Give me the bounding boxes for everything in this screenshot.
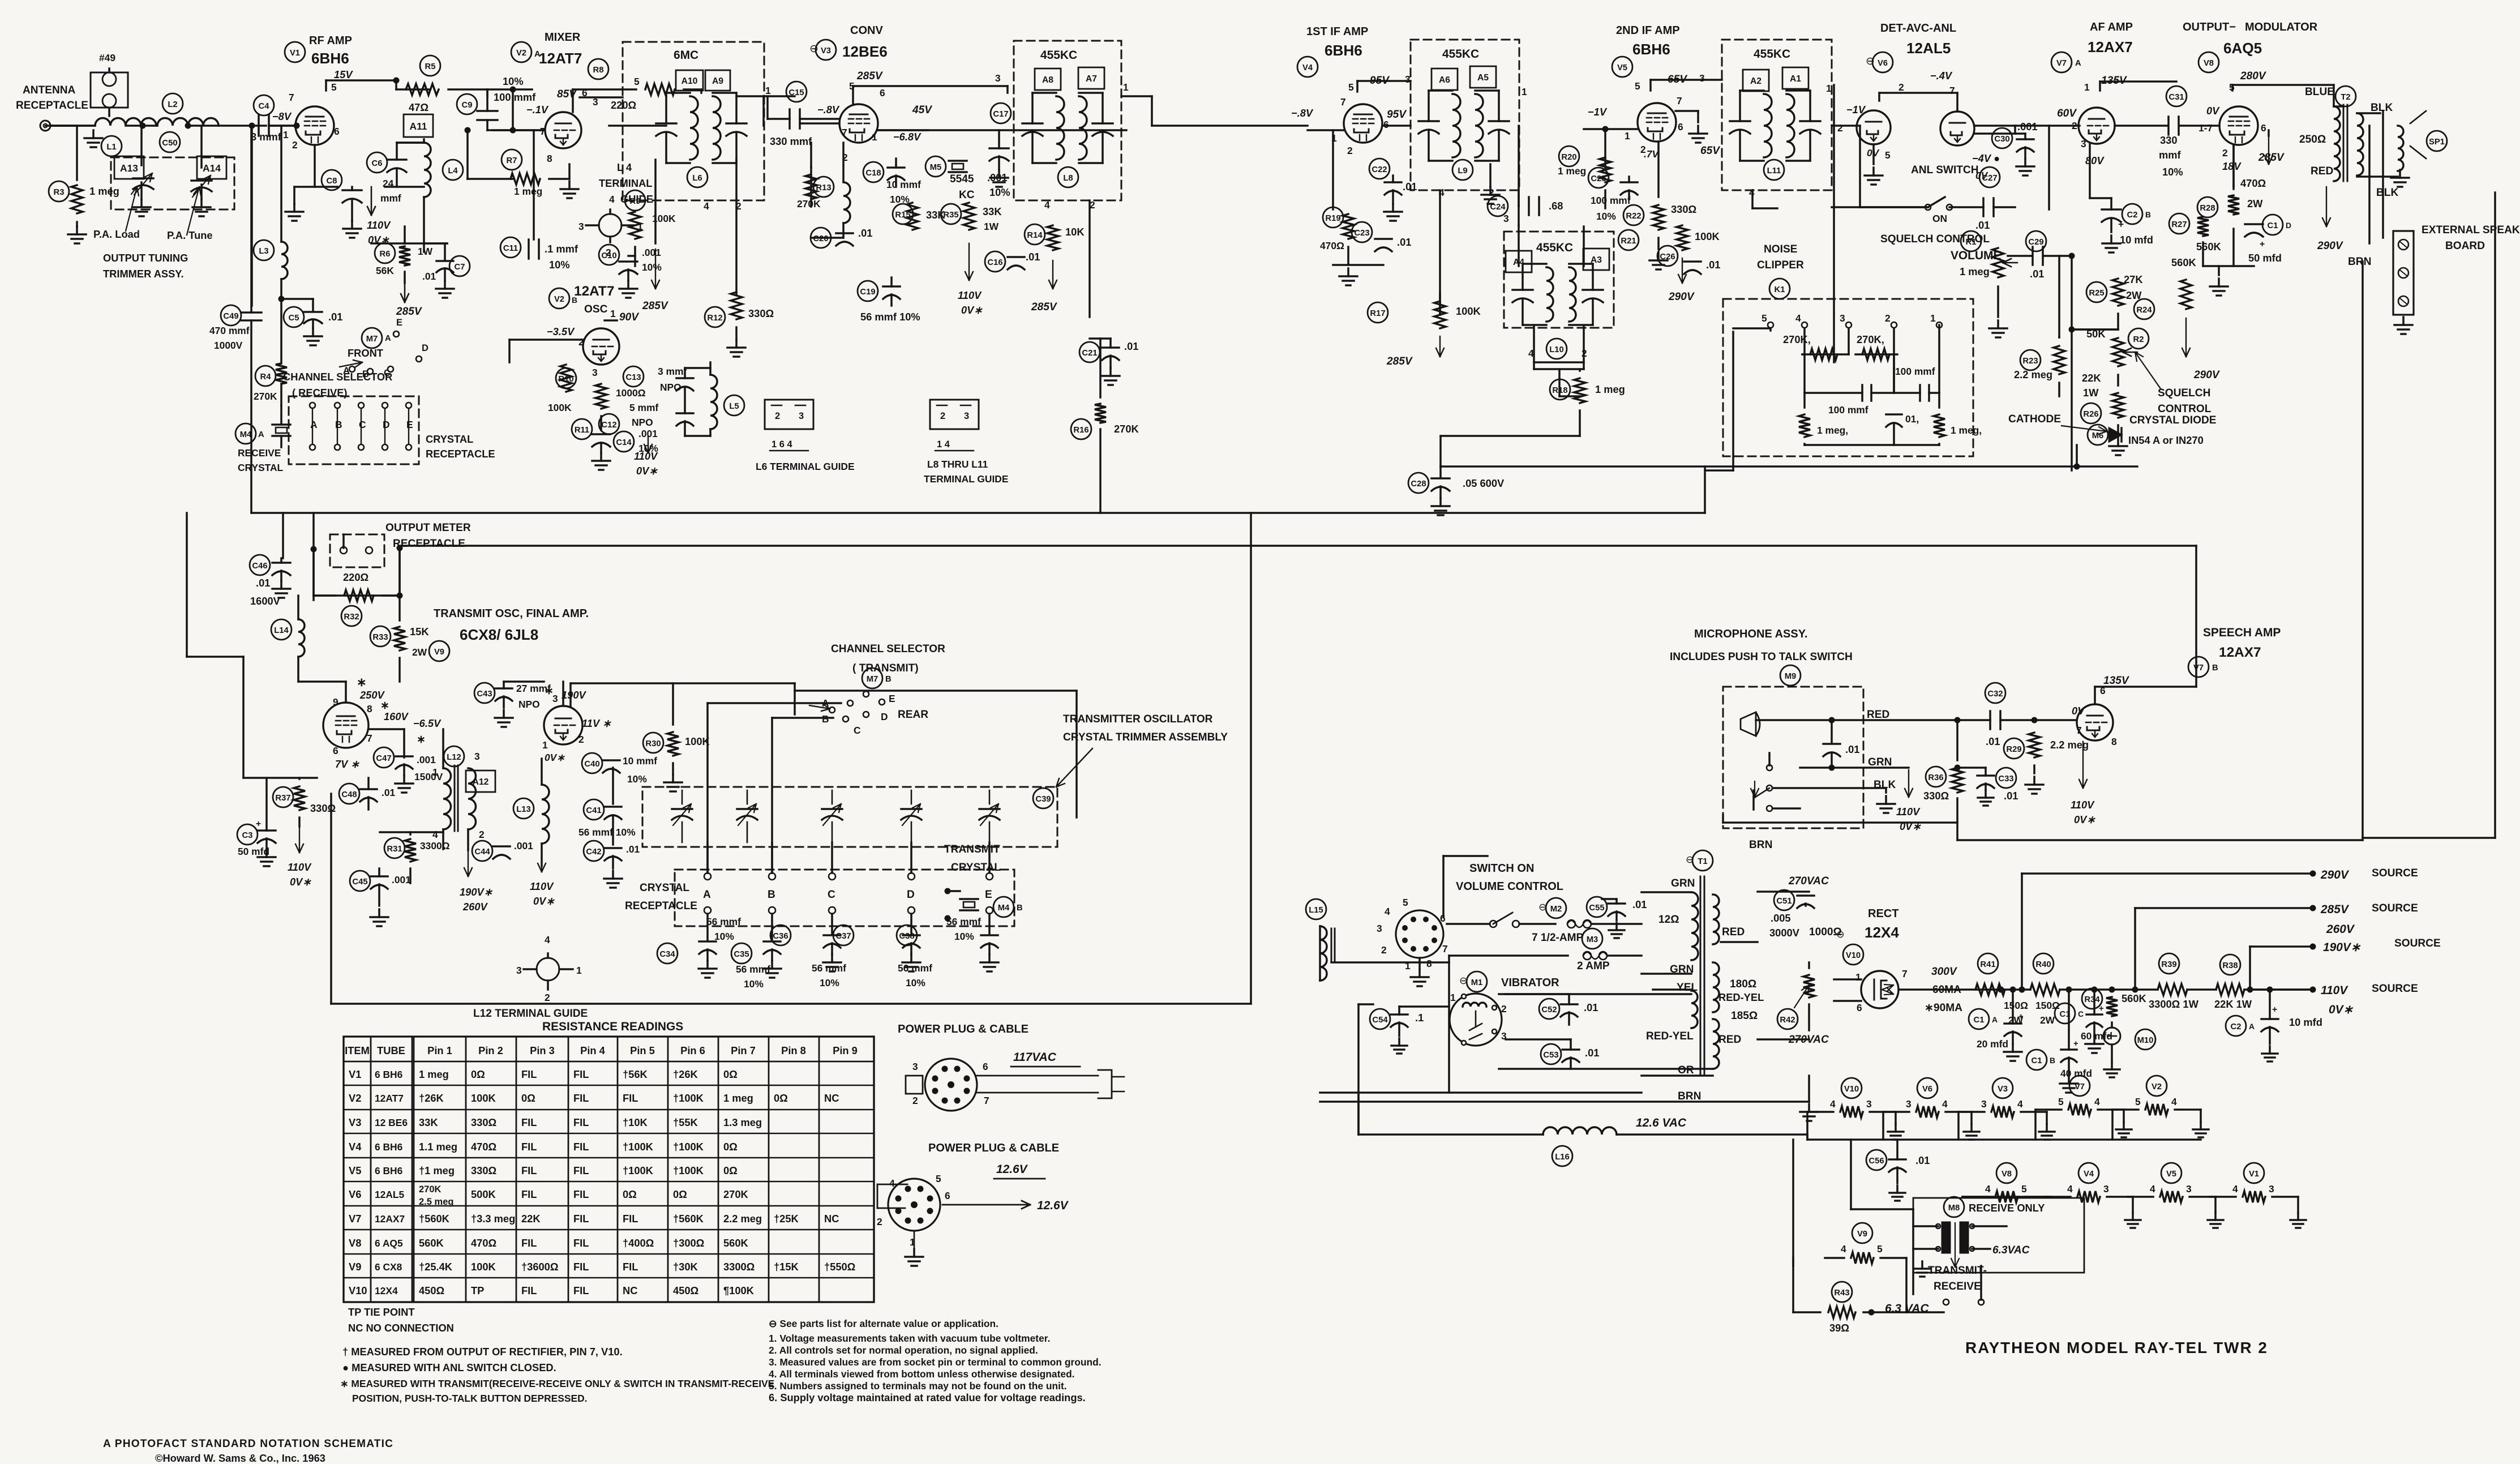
svg-text:−.1V: −.1V bbox=[526, 104, 549, 115]
svg-text:56K: 56K bbox=[376, 265, 394, 276]
svg-text:L3: L3 bbox=[259, 247, 268, 256]
svg-text:−.8V: −.8V bbox=[817, 104, 840, 115]
svg-text:6BH6: 6BH6 bbox=[311, 50, 349, 67]
svg-text:12.6V: 12.6V bbox=[1037, 1199, 1069, 1212]
svg-text:1 6 4: 1 6 4 bbox=[772, 439, 793, 450]
svg-text:10 mfd: 10 mfd bbox=[2120, 234, 2153, 246]
svg-text:290V: 290V bbox=[2317, 240, 2344, 252]
svg-text:V8: V8 bbox=[2002, 1170, 2012, 1179]
svg-text:10%: 10% bbox=[954, 931, 974, 942]
svg-text:L 4: L 4 bbox=[617, 161, 632, 173]
svg-text:7: 7 bbox=[1442, 943, 1448, 954]
svg-text:FIL: FIL bbox=[573, 1141, 589, 1153]
svg-text:1: 1 bbox=[1826, 83, 1832, 94]
svg-text:22K: 22K bbox=[521, 1213, 541, 1225]
svg-text:TRIMMER ASSY.: TRIMMER ASSY. bbox=[103, 268, 184, 280]
svg-text:B: B bbox=[2145, 210, 2151, 219]
svg-text:FIL: FIL bbox=[573, 1092, 589, 1104]
svg-text:†3.3 meg: †3.3 meg bbox=[471, 1213, 515, 1225]
svg-text:450Ω: 450Ω bbox=[673, 1285, 698, 1296]
svg-text:BRN: BRN bbox=[1678, 1090, 1701, 1102]
svg-text:10%: 10% bbox=[906, 977, 925, 988]
svg-text:4: 4 bbox=[609, 194, 615, 205]
svg-text:1: 1 bbox=[576, 965, 582, 976]
svg-text:V8: V8 bbox=[349, 1237, 361, 1249]
svg-text:90V: 90V bbox=[619, 311, 640, 323]
svg-text:5: 5 bbox=[1762, 313, 1767, 324]
svg-text:56 mmf 10%: 56 mmf 10% bbox=[860, 311, 920, 323]
svg-text:C4: C4 bbox=[259, 102, 270, 111]
svg-text:2ND IF AMP: 2ND IF AMP bbox=[1616, 24, 1680, 37]
svg-text:R17: R17 bbox=[1370, 309, 1385, 318]
svg-text:NPO: NPO bbox=[518, 699, 540, 710]
svg-text:5: 5 bbox=[936, 1173, 941, 1184]
svg-text:RF AMP: RF AMP bbox=[309, 35, 352, 47]
svg-text:A: A bbox=[343, 366, 350, 376]
svg-text:RAYTHEON MODEL RAY-TEL TWR: RAYTHEON MODEL RAY-TEL TWR 2 bbox=[1965, 1339, 2268, 1356]
svg-text:280V: 280V bbox=[2240, 70, 2267, 82]
svg-text:1 4: 1 4 bbox=[937, 439, 950, 450]
svg-text:+: + bbox=[2118, 219, 2124, 230]
svg-text:SOURCE: SOURCE bbox=[2394, 938, 2441, 949]
svg-text:R23: R23 bbox=[2022, 357, 2038, 366]
svg-text:FIL: FIL bbox=[521, 1165, 537, 1176]
svg-text:C21: C21 bbox=[1082, 349, 1097, 358]
svg-text:56 mmf: 56 mmf bbox=[736, 964, 770, 975]
svg-text:180Ω: 180Ω bbox=[1730, 978, 1756, 990]
svg-text:12AX7: 12AX7 bbox=[2088, 38, 2133, 55]
svg-text:Pin 4: Pin 4 bbox=[580, 1045, 606, 1056]
svg-text:C38: C38 bbox=[899, 932, 914, 941]
svg-text:FIL: FIL bbox=[521, 1141, 537, 1153]
svg-text:12AX7: 12AX7 bbox=[2219, 645, 2261, 660]
svg-text:C1: C1 bbox=[2268, 221, 2278, 230]
svg-text:B: B bbox=[822, 713, 829, 725]
svg-text:†100K: †100K bbox=[673, 1092, 704, 1104]
svg-text:12AL5: 12AL5 bbox=[375, 1189, 405, 1200]
svg-text:VOLUME CONTROL: VOLUME CONTROL bbox=[1456, 880, 1563, 893]
svg-text:.01: .01 bbox=[1026, 251, 1040, 263]
svg-text:135V: 135V bbox=[2103, 675, 2130, 687]
svg-text:4: 4 bbox=[1795, 313, 1801, 324]
svg-text:22K: 22K bbox=[2082, 372, 2101, 384]
svg-text:5: 5 bbox=[1348, 82, 1354, 93]
svg-text:12X4: 12X4 bbox=[375, 1285, 398, 1296]
svg-text:10%: 10% bbox=[820, 977, 839, 988]
svg-text:RED: RED bbox=[1718, 1034, 1741, 1046]
svg-text:+: + bbox=[2272, 1005, 2277, 1014]
svg-text:2: 2 bbox=[2222, 147, 2228, 159]
svg-text:+: + bbox=[256, 819, 261, 829]
svg-text:100K: 100K bbox=[685, 735, 710, 747]
svg-text:L13: L13 bbox=[516, 805, 531, 814]
svg-text:C24: C24 bbox=[1490, 203, 1506, 212]
svg-text:FIL: FIL bbox=[521, 1068, 537, 1080]
svg-text:C12: C12 bbox=[601, 421, 616, 430]
svg-text:⊖ See parts list for alter: ⊖ See parts list for alternate value or … bbox=[769, 1318, 998, 1329]
svg-text:KC: KC bbox=[959, 189, 975, 201]
svg-text:6AQ5: 6AQ5 bbox=[2223, 40, 2262, 57]
svg-text:⊖: ⊖ bbox=[1538, 901, 1547, 913]
svg-text:270K: 270K bbox=[254, 391, 277, 402]
svg-text:10%: 10% bbox=[642, 262, 662, 273]
svg-text:.01: .01 bbox=[1975, 219, 1990, 231]
svg-text:CATHODE: CATHODE bbox=[2008, 413, 2061, 425]
svg-text:285V: 285V bbox=[856, 70, 884, 82]
svg-text:RECT: RECT bbox=[1868, 907, 1898, 920]
svg-text:2W: 2W bbox=[412, 647, 427, 658]
svg-text:7: 7 bbox=[540, 126, 546, 137]
svg-text:1 meg: 1 meg bbox=[419, 1068, 449, 1080]
svg-text:.01: .01 bbox=[1124, 340, 1138, 352]
svg-text:100 mmf: 100 mmf bbox=[494, 91, 536, 103]
svg-text:4: 4 bbox=[432, 829, 438, 840]
svg-text:RED: RED bbox=[1867, 709, 1889, 721]
svg-text:3300Ω 1W: 3300Ω 1W bbox=[2149, 998, 2199, 1010]
svg-text:C3: C3 bbox=[242, 831, 253, 840]
svg-text:C28: C28 bbox=[1411, 480, 1426, 489]
svg-text:45V: 45V bbox=[912, 104, 933, 116]
svg-text:C11: C11 bbox=[503, 244, 518, 253]
svg-text:4: 4 bbox=[2150, 1183, 2155, 1195]
svg-text:.01: .01 bbox=[328, 311, 342, 323]
svg-text:12 BE6: 12 BE6 bbox=[375, 1117, 408, 1128]
svg-text:T1: T1 bbox=[1698, 857, 1707, 866]
svg-text:10 mmf: 10 mmf bbox=[623, 755, 657, 767]
svg-text:R33: R33 bbox=[372, 633, 388, 642]
svg-text:R32: R32 bbox=[344, 613, 359, 622]
svg-text:NC: NC bbox=[824, 1092, 839, 1104]
svg-text:C10: C10 bbox=[601, 251, 616, 260]
svg-text:A9: A9 bbox=[712, 76, 723, 86]
svg-text:V1: V1 bbox=[290, 49, 300, 58]
svg-text:V5: V5 bbox=[349, 1165, 361, 1176]
svg-text:V4: V4 bbox=[349, 1141, 362, 1153]
svg-text:270K: 270K bbox=[723, 1188, 749, 1200]
svg-text:mmf: mmf bbox=[2159, 149, 2182, 161]
svg-text:1 meg: 1 meg bbox=[1960, 266, 1990, 277]
svg-text:560K: 560K bbox=[2171, 256, 2197, 268]
svg-text:560K: 560K bbox=[723, 1237, 749, 1249]
svg-text:56 mmf 10%: 56 mmf 10% bbox=[578, 827, 636, 838]
svg-text:† MEASURED FROM OUTPUT OF REC: † MEASURED FROM OUTPUT OF RECTIFIER, PIN… bbox=[342, 1346, 623, 1358]
svg-text:CONV: CONV bbox=[850, 24, 883, 37]
svg-text:V1: V1 bbox=[349, 1068, 361, 1080]
svg-text:110V: 110V bbox=[958, 289, 982, 301]
svg-text:1 meg,: 1 meg, bbox=[1951, 425, 1982, 436]
svg-text:B: B bbox=[1017, 904, 1023, 913]
svg-text:V9: V9 bbox=[349, 1261, 361, 1273]
svg-text:R4: R4 bbox=[260, 373, 272, 382]
svg-text:R6: R6 bbox=[380, 250, 391, 259]
svg-text:3: 3 bbox=[578, 221, 584, 232]
svg-text:3: 3 bbox=[2186, 1183, 2192, 1195]
svg-text:C30: C30 bbox=[1994, 135, 2009, 144]
svg-text:VIBRATOR: VIBRATOR bbox=[1501, 977, 1559, 989]
svg-text:†400Ω: †400Ω bbox=[623, 1237, 654, 1249]
svg-text:0Ω: 0Ω bbox=[723, 1165, 738, 1176]
svg-text:A13: A13 bbox=[120, 162, 138, 174]
svg-text:MODULATOR: MODULATOR bbox=[2245, 21, 2318, 33]
svg-text:6 BH6: 6 BH6 bbox=[375, 1165, 403, 1176]
svg-text:260V: 260V bbox=[462, 901, 488, 913]
svg-text:R11: R11 bbox=[575, 426, 589, 435]
svg-text:TRANSMITTER OSCILLATOR: TRANSMITTER OSCILLATOR bbox=[1063, 713, 1213, 725]
svg-text:0Ω: 0Ω bbox=[673, 1188, 687, 1200]
svg-text:POWER PLUG & CABLE: POWER PLUG & CABLE bbox=[928, 1142, 1059, 1154]
svg-text:1 meg: 1 meg bbox=[1595, 383, 1625, 395]
svg-text:1: 1 bbox=[283, 129, 289, 140]
svg-text:8: 8 bbox=[367, 703, 372, 714]
svg-text:560K: 560K bbox=[2196, 241, 2222, 252]
svg-text:2: 2 bbox=[578, 336, 584, 348]
svg-text:M4: M4 bbox=[240, 430, 252, 439]
svg-text:R42: R42 bbox=[1780, 1016, 1795, 1025]
svg-text:290V: 290V bbox=[1668, 291, 1695, 303]
svg-text:6BH6: 6BH6 bbox=[1632, 41, 1670, 58]
svg-text:BRN: BRN bbox=[2348, 256, 2371, 268]
svg-text:4: 4 bbox=[1841, 1243, 1846, 1255]
svg-text:BLK: BLK bbox=[2376, 187, 2398, 199]
svg-text:56 mmf: 56 mmf bbox=[706, 916, 741, 927]
svg-text:BRN: BRN bbox=[1749, 839, 1772, 851]
svg-text:285V: 285V bbox=[1386, 356, 1413, 367]
svg-text:100 mmf: 100 mmf bbox=[1895, 366, 1935, 377]
svg-text:CRYSTAL TRIMMER ASSEMBLY: CRYSTAL TRIMMER ASSEMBLY bbox=[1063, 731, 1228, 743]
svg-text:C: C bbox=[854, 725, 861, 736]
svg-text:V10: V10 bbox=[1846, 951, 1861, 960]
svg-text:V2: V2 bbox=[2152, 1082, 2162, 1091]
svg-text:15V: 15V bbox=[334, 69, 353, 80]
svg-text:†100K: †100K bbox=[623, 1165, 654, 1176]
svg-text:V10: V10 bbox=[349, 1285, 367, 1296]
svg-text:33K: 33K bbox=[983, 206, 1002, 217]
svg-text:285V: 285V bbox=[1031, 301, 1058, 313]
svg-text:L6: L6 bbox=[692, 174, 702, 183]
svg-text:3 mmf: 3 mmf bbox=[251, 131, 282, 143]
svg-text:47Ω: 47Ω bbox=[409, 101, 428, 113]
svg-text:R39: R39 bbox=[2161, 960, 2176, 969]
svg-text:10%: 10% bbox=[744, 978, 764, 990]
svg-text:D: D bbox=[2286, 221, 2291, 230]
svg-text:.01: .01 bbox=[1584, 1001, 1598, 1013]
svg-text:C25: C25 bbox=[1591, 174, 1606, 183]
svg-text:3: 3 bbox=[1906, 1098, 1912, 1110]
svg-text:330Ω: 330Ω bbox=[310, 802, 336, 814]
svg-text:65V: 65V bbox=[1700, 145, 1721, 157]
svg-text:C1: C1 bbox=[2060, 1010, 2071, 1019]
svg-text:0V∗: 0V∗ bbox=[2329, 1003, 2354, 1016]
svg-text:C29: C29 bbox=[2028, 238, 2043, 247]
svg-text:1: 1 bbox=[432, 767, 438, 778]
svg-text:1: 1 bbox=[1123, 82, 1129, 93]
svg-text:1 meg: 1 meg bbox=[514, 186, 542, 197]
svg-text:C55: C55 bbox=[1589, 904, 1604, 913]
svg-text:R19: R19 bbox=[1325, 214, 1340, 223]
svg-text:−8V: −8V bbox=[272, 110, 292, 122]
svg-text:4: 4 bbox=[1385, 906, 1390, 917]
svg-text:V7: V7 bbox=[2056, 59, 2067, 68]
svg-text:B: B bbox=[335, 419, 342, 430]
svg-text:AF AMP: AF AMP bbox=[2090, 21, 2133, 33]
svg-text:285V: 285V bbox=[396, 306, 423, 318]
svg-text:A: A bbox=[258, 430, 264, 439]
svg-text:R20: R20 bbox=[1561, 153, 1576, 162]
svg-text:C26: C26 bbox=[1660, 252, 1675, 262]
svg-text:RED: RED bbox=[1722, 926, 1745, 938]
svg-text:100K: 100K bbox=[471, 1261, 496, 1273]
svg-text:C1: C1 bbox=[1974, 1016, 1985, 1025]
svg-text:560K: 560K bbox=[2122, 992, 2147, 1004]
svg-text:2: 2 bbox=[877, 1216, 882, 1227]
svg-text:†55K: †55K bbox=[673, 1116, 698, 1128]
svg-text:C35: C35 bbox=[734, 950, 749, 959]
svg-text:+: + bbox=[2260, 239, 2265, 249]
svg-text:3: 3 bbox=[592, 367, 598, 378]
svg-text:CRYSTAL: CRYSTAL bbox=[640, 882, 689, 894]
svg-text:NC NO CONNECTION: NC NO CONNECTION bbox=[348, 1322, 454, 1334]
svg-text:E: E bbox=[406, 419, 413, 430]
svg-text:110V: 110V bbox=[288, 861, 312, 873]
svg-text:.001: .001 bbox=[514, 840, 533, 851]
svg-text:TERMINAL: TERMINAL bbox=[599, 177, 652, 189]
svg-text:R40: R40 bbox=[2035, 960, 2051, 969]
svg-text:330Ω: 330Ω bbox=[1671, 203, 1696, 215]
svg-text:FIL: FIL bbox=[573, 1188, 589, 1200]
svg-text:5: 5 bbox=[1635, 80, 1640, 92]
svg-text:Pin 2: Pin 2 bbox=[478, 1045, 503, 1056]
svg-text:V3: V3 bbox=[349, 1116, 361, 1128]
svg-text:270K,: 270K, bbox=[1857, 333, 1884, 345]
svg-text:0Ω: 0Ω bbox=[623, 1188, 637, 1200]
svg-text:110V: 110V bbox=[634, 450, 658, 462]
svg-text:10%: 10% bbox=[549, 259, 570, 271]
svg-text:−.8V: −.8V bbox=[1291, 107, 1314, 119]
svg-text:4: 4 bbox=[1942, 1098, 1948, 1110]
svg-text:NPO: NPO bbox=[632, 417, 653, 428]
svg-text:.01: .01 bbox=[1845, 743, 1859, 755]
svg-text:B: B bbox=[2050, 1056, 2055, 1065]
svg-text:6: 6 bbox=[1857, 1002, 1862, 1013]
svg-text:110V: 110V bbox=[2071, 799, 2095, 811]
svg-text:−6.5V: −6.5V bbox=[413, 717, 442, 729]
svg-text:6. Supply voltage maintaine: 6. Supply voltage maintained at rated va… bbox=[769, 1392, 1086, 1403]
svg-text:C46: C46 bbox=[252, 562, 267, 571]
svg-text:2. All controls set for nor: 2. All controls set for normal operation… bbox=[769, 1345, 1038, 1356]
svg-text:C18: C18 bbox=[865, 169, 881, 178]
svg-text:V6: V6 bbox=[1922, 1085, 1932, 1094]
svg-text:∗90MA: ∗90MA bbox=[1925, 1002, 1962, 1014]
svg-text:FIL: FIL bbox=[573, 1068, 589, 1080]
svg-text:†25K: †25K bbox=[774, 1213, 799, 1225]
svg-text:L12: L12 bbox=[447, 753, 461, 762]
svg-text:V4: V4 bbox=[2084, 1170, 2094, 1179]
svg-text:150Ω: 150Ω bbox=[2004, 1000, 2028, 1011]
svg-text:190V: 190V bbox=[562, 689, 587, 701]
svg-text:M2: M2 bbox=[1550, 905, 1562, 914]
svg-text:11V ∗: 11V ∗ bbox=[582, 717, 611, 729]
svg-text:L16: L16 bbox=[1555, 1153, 1570, 1162]
svg-text:⊖: ⊖ bbox=[1866, 55, 1875, 67]
svg-text:V3: V3 bbox=[1998, 1085, 2008, 1094]
svg-text:V1: V1 bbox=[2249, 1170, 2259, 1179]
svg-text:BLUE: BLUE bbox=[2305, 86, 2334, 98]
svg-text:R36: R36 bbox=[1928, 773, 1943, 782]
svg-text:V7: V7 bbox=[2075, 1082, 2085, 1091]
svg-text:V7: V7 bbox=[2193, 663, 2204, 673]
svg-text:5: 5 bbox=[1885, 149, 1891, 161]
svg-text:.01: .01 bbox=[2004, 790, 2018, 802]
svg-text:0V∗: 0V∗ bbox=[533, 895, 555, 907]
svg-text:K1: K1 bbox=[1775, 285, 1785, 294]
svg-text:A5: A5 bbox=[1477, 73, 1489, 83]
svg-text:TRANSMIT-: TRANSMIT- bbox=[1928, 1265, 1987, 1277]
svg-text:455KC: 455KC bbox=[1040, 49, 1077, 62]
svg-text:12AL5: 12AL5 bbox=[1906, 40, 1951, 57]
svg-text:3300Ω: 3300Ω bbox=[420, 840, 450, 851]
svg-text:330 mmf: 330 mmf bbox=[770, 135, 812, 147]
svg-text:1: 1 bbox=[2084, 82, 2090, 93]
svg-text:80V: 80V bbox=[2085, 155, 2105, 166]
svg-text:C20: C20 bbox=[813, 234, 828, 243]
svg-text:3: 3 bbox=[799, 411, 804, 421]
svg-text:R25: R25 bbox=[2089, 289, 2104, 298]
svg-text:L1: L1 bbox=[106, 143, 116, 152]
svg-text:7: 7 bbox=[1902, 968, 1908, 979]
svg-text:C19: C19 bbox=[860, 288, 875, 297]
svg-text:FIL: FIL bbox=[521, 1237, 537, 1249]
svg-text:RECEPTACLE: RECEPTACLE bbox=[625, 900, 697, 912]
svg-text:FIL: FIL bbox=[623, 1092, 638, 1104]
svg-text:∗ MEASURED WITH TRANSMIT(RECE: ∗ MEASURED WITH TRANSMIT(RECEIVE-RECEIVE… bbox=[340, 1378, 774, 1389]
svg-text:DET-AVC-ANL: DET-AVC-ANL bbox=[1880, 22, 1956, 35]
svg-text:4: 4 bbox=[704, 200, 709, 212]
svg-text:T2: T2 bbox=[2341, 93, 2350, 102]
svg-text:C42: C42 bbox=[586, 847, 601, 857]
svg-text:2: 2 bbox=[479, 829, 485, 840]
svg-text:A: A bbox=[1992, 1015, 1998, 1024]
svg-text:3 mmf: 3 mmf bbox=[658, 366, 687, 377]
svg-text:C22: C22 bbox=[1372, 165, 1387, 174]
svg-text:C14: C14 bbox=[616, 438, 632, 447]
svg-text:1: 1 bbox=[1522, 86, 1527, 97]
svg-text:R43: R43 bbox=[1834, 1289, 1849, 1298]
svg-text:185Ω: 185Ω bbox=[1731, 1010, 1758, 1022]
svg-text:3: 3 bbox=[1377, 923, 1382, 934]
svg-text:CONTROL: CONTROL bbox=[2158, 403, 2212, 415]
svg-text:CHANNEL SELECTOR: CHANNEL SELECTOR bbox=[831, 643, 945, 655]
svg-text:0V: 0V bbox=[1975, 170, 1988, 181]
svg-text:C5: C5 bbox=[289, 314, 299, 323]
svg-text:5: 5 bbox=[2058, 1096, 2064, 1107]
svg-text:18V: 18V bbox=[2222, 160, 2242, 172]
svg-text:330Ω: 330Ω bbox=[1923, 790, 1949, 802]
svg-text:.01: .01 bbox=[422, 271, 436, 282]
svg-text:2: 2 bbox=[1885, 313, 1891, 324]
svg-text:B: B bbox=[885, 675, 892, 684]
svg-text:Pin 9: Pin 9 bbox=[833, 1045, 858, 1056]
svg-text:0V∗: 0V∗ bbox=[545, 752, 565, 763]
svg-text:6.3VAC: 6.3VAC bbox=[1992, 1244, 2030, 1256]
svg-text:290V: 290V bbox=[2193, 369, 2221, 381]
svg-text:MIXER: MIXER bbox=[545, 31, 581, 44]
svg-text:.01: .01 bbox=[858, 227, 872, 239]
svg-text:L8: L8 bbox=[1063, 174, 1073, 183]
svg-text:470Ω: 470Ω bbox=[2240, 177, 2266, 189]
svg-text:ITEM: ITEM bbox=[345, 1045, 370, 1056]
svg-text:1 meg,: 1 meg, bbox=[1817, 425, 1848, 436]
svg-text:Pin 3: Pin 3 bbox=[530, 1045, 555, 1056]
